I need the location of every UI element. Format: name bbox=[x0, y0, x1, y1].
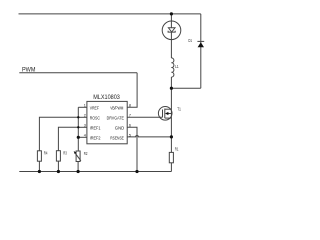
junction node rail R3 bbox=[57, 170, 60, 173]
junction node bus pin3 bbox=[77, 126, 79, 128]
svg-text:T1: T1 bbox=[177, 106, 181, 111]
junction node rail GND bbox=[135, 170, 138, 173]
wire inductor to drain node bbox=[170, 77, 172, 88]
resistor R2 body (variable) bbox=[76, 151, 80, 162]
transistor T1 bulk segment bbox=[168, 113, 172, 115]
junction node lamp top bbox=[170, 12, 173, 15]
wire U1 pin 4 stub bbox=[78, 136, 87, 138]
transistor T1 channel bar bbox=[164, 109, 166, 119]
transistor T1 bulk arrow bbox=[165, 112, 168, 115]
transistor T1 gate wire from U1 pin 7 bbox=[127, 116, 162, 118]
lamp internal vertical wire bbox=[170, 21, 172, 39]
svg-text:D1: D1 bbox=[188, 38, 192, 43]
wire U1 pin 3 stub bbox=[78, 126, 87, 128]
lamp internal diode triangle bbox=[168, 28, 175, 32]
wire R2 to rail bbox=[77, 162, 79, 172]
svg-text:ROSC: ROSC bbox=[90, 116, 100, 121]
svg-text:DRVGATE: DRVGATE bbox=[107, 116, 124, 121]
transistor T1 gate bar bbox=[162, 110, 164, 118]
wire R4 to rail bbox=[38, 161, 40, 171]
wire PWM horizontal bbox=[19, 72, 137, 74]
diode D1 cathode bar bbox=[197, 40, 204, 42]
svg-text:4: 4 bbox=[84, 133, 86, 137]
resistor R1 body bbox=[169, 152, 173, 162]
wire U1 pin 8 to PWM line bbox=[127, 73, 137, 108]
svg-text:R2: R2 bbox=[84, 151, 88, 156]
wire GND from U1 pin 6 to bottom rail bbox=[127, 127, 137, 171]
wire right drop to diode branch bbox=[200, 14, 202, 88]
transistor T1 circle bbox=[158, 107, 172, 121]
diode D1 triangle bbox=[198, 42, 204, 47]
svg-text:PWM: PWM bbox=[22, 66, 36, 73]
svg-text:6: 6 bbox=[129, 123, 131, 127]
svg-text:VREF: VREF bbox=[90, 106, 100, 111]
svg-text:2: 2 bbox=[84, 113, 86, 117]
svg-text:IREF1: IREF1 bbox=[90, 126, 101, 131]
wire U1 pin 1 stub bbox=[78, 106, 87, 108]
svg-text:R1: R1 bbox=[175, 146, 179, 151]
transistor T1 drain segment bbox=[165, 108, 172, 110]
wire RSENSE from node to U1 pin 5 with hop over GND wire bbox=[127, 136, 171, 137]
resistor R4 body bbox=[37, 151, 41, 161]
wire drain node down through T1 to R1 bbox=[170, 88, 172, 152]
resistor R2 arrowhead bbox=[74, 151, 77, 154]
wire IREF1 branch to R3 bbox=[58, 127, 78, 150]
svg-text:7: 7 bbox=[129, 113, 131, 117]
wire diode branch bottom to node bbox=[171, 87, 200, 89]
wire ROSC branch to R4 bbox=[39, 117, 78, 151]
svg-text:3: 3 bbox=[84, 123, 86, 127]
svg-text:VB/PWM: VB/PWM bbox=[110, 106, 123, 111]
wire lamp to inductor bbox=[170, 40, 172, 59]
wire bottom ground rail bbox=[19, 171, 171, 173]
inductor L1 bbox=[171, 58, 174, 77]
svg-text:L1: L1 bbox=[175, 64, 179, 69]
wire R3 to rail bbox=[57, 161, 59, 171]
svg-text:8: 8 bbox=[129, 103, 131, 107]
wire top supply rail bbox=[19, 13, 201, 15]
junction node drain bbox=[170, 87, 173, 90]
wire U1 pin 2 stub bbox=[78, 116, 87, 118]
junction node RSENSE bbox=[170, 135, 173, 138]
junction node rail R2 bbox=[77, 170, 80, 173]
svg-text:R3: R3 bbox=[63, 150, 67, 155]
IC U1 MLX10803 body bbox=[87, 101, 127, 143]
svg-text:1: 1 bbox=[84, 103, 86, 107]
svg-text:RSENSE: RSENSE bbox=[110, 136, 124, 141]
lamp DL1 circle bbox=[162, 21, 181, 40]
junction node rail R4 bbox=[38, 170, 41, 173]
lamp internal cathode bar with ticks bbox=[168, 31, 175, 32]
wire left bus VREF to R2 bbox=[77, 107, 79, 151]
wire R1 to rail corner bbox=[170, 163, 172, 172]
junction node bus pin2 bbox=[77, 116, 79, 118]
resistor R2 wiper arrow shaft bbox=[75, 153, 81, 161]
svg-text:5: 5 bbox=[129, 133, 131, 137]
svg-text:IREF2: IREF2 bbox=[90, 136, 101, 141]
transistor T1 source segment bbox=[165, 117, 172, 119]
svg-text:R4: R4 bbox=[44, 150, 48, 155]
junction node bus pin4 bbox=[77, 136, 80, 139]
svg-text:GND: GND bbox=[115, 126, 124, 131]
svg-text:MLX10803: MLX10803 bbox=[93, 94, 120, 101]
resistor R3 body bbox=[56, 151, 60, 161]
wire lamp branch top bbox=[170, 14, 172, 21]
